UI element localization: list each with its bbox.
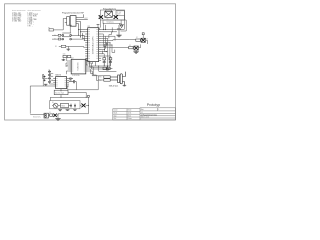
wire relay nets bbox=[99, 15, 127, 31]
IC3 (driver) bbox=[63, 54, 86, 78]
title table left text bbox=[114, 109, 133, 120]
sub-d connector X3 bbox=[110, 72, 125, 85]
wire MAX232 bottom to connector bbox=[61, 86, 76, 91]
ground G1 under regulator bbox=[58, 110, 62, 112]
IC3 pin labels inside bbox=[72, 61, 86, 71]
pushbutton S4 bbox=[52, 37, 85, 41]
wire X2 to rail bbox=[61, 82, 86, 98]
svg-text:R3: R3 bbox=[55, 46, 57, 48]
contact S1 left bbox=[99, 15, 103, 19]
wire gnd bus under crystal bbox=[90, 62, 117, 72]
MAX232 pin labels inside bbox=[56, 78, 66, 86]
wire IC3 left bbox=[66, 58, 69, 75]
svg-text:Buchse 9pol: Buchse 9pol bbox=[55, 92, 64, 94]
wire caps to MAX232 bbox=[43, 73, 53, 86]
ground under K3 bbox=[133, 52, 138, 54]
small boxes above jumpers bbox=[103, 67, 112, 69]
junction dots bus bbox=[78, 35, 85, 40]
svg-text:9 RI –: 9 RI – bbox=[28, 25, 33, 27]
relay K2 cluster bbox=[130, 33, 148, 44]
junction dots bbox=[86, 29, 113, 65]
ground at C5 bbox=[62, 59, 66, 62]
svg-text:Name:: Name: bbox=[128, 110, 132, 112]
svg-text:TXD: TXD bbox=[99, 80, 102, 82]
relay K3 cluster bbox=[125, 44, 141, 51]
wire MAX232 left bbox=[30, 74, 53, 113]
MAX232 pins bbox=[53, 78, 69, 86]
connector X2 box bbox=[54, 90, 68, 94]
svg-text:1:1: 1:1 bbox=[141, 112, 143, 114]
svg-text:K1 12V: K1 12V bbox=[117, 12, 122, 14]
IC2 pin labels inside bbox=[88, 30, 98, 59]
frame is decorative bbox=[5, 4, 176, 120]
pin table T1 bbox=[12, 9, 26, 23]
resistor R4 bbox=[48, 27, 63, 31]
capacitor C1 bbox=[48, 69, 51, 74]
relay driver block K1 bbox=[100, 9, 124, 24]
svg-text:7805: 7805 bbox=[61, 106, 65, 108]
pad P2 bbox=[107, 68, 109, 70]
jumper JP2 bbox=[99, 79, 110, 82]
MAX232 IC1 bbox=[55, 73, 66, 88]
IC2 pins right bbox=[99, 30, 102, 61]
ground below C7 bbox=[116, 35, 121, 37]
node plus marks bbox=[44, 76, 46, 82]
diode D1 bbox=[81, 104, 85, 108]
capacitor C7 (at reset) bbox=[117, 25, 121, 35]
relay info box bbox=[116, 11, 124, 16]
svg-text:ATMEGA32-16PC: ATMEGA32-16PC bbox=[91, 36, 94, 54]
junction dots ISP bbox=[78, 29, 81, 32]
svg-text:ULN2003: ULN2003 bbox=[77, 63, 79, 71]
title block right bbox=[140, 108, 176, 120]
svg-text:Programmierstecker ISP: Programmierstecker ISP bbox=[62, 12, 84, 15]
node VCC stub bbox=[69, 25, 72, 33]
pad P1 bbox=[88, 95, 90, 97]
svg-text:Prototyp: Prototyp bbox=[147, 103, 160, 107]
pin table T2 bbox=[28, 9, 41, 28]
wire bus left of IC2 bbox=[82, 33, 85, 41]
ground under R3 bbox=[67, 49, 71, 51]
power section box bbox=[50, 101, 80, 109]
ground G2 bbox=[66, 109, 77, 112]
svg-text:K1: K1 bbox=[107, 18, 109, 20]
svg-text:6 GND GND: 6 GND GND bbox=[12, 21, 22, 23]
svg-text:RXD: RXD bbox=[99, 77, 102, 79]
junction dots power bbox=[61, 97, 89, 106]
node VCC at IC2 top bbox=[97, 25, 100, 28]
capacitor C8 bbox=[70, 104, 72, 108]
svg-text:Norm: Norm bbox=[128, 115, 131, 117]
svg-text:12.04.: 12.04. bbox=[128, 113, 132, 115]
svg-text:Umpolung: Umpolung bbox=[107, 22, 114, 24]
terminal X1 bbox=[33, 113, 48, 118]
ground at relay block bbox=[120, 25, 123, 27]
microcontroller IC2 bbox=[88, 26, 99, 62]
capacitor C2 bbox=[48, 75, 53, 78]
capacitor C11 bbox=[109, 60, 112, 66]
svg-text:1 Hauptsteuerung: 1 Hauptsteuerung bbox=[141, 114, 157, 117]
wire ISP nets bbox=[63, 14, 88, 37]
wire power rails bbox=[30, 97, 88, 118]
crystal Q1 bbox=[101, 54, 112, 60]
pushbutton S3 bbox=[52, 33, 85, 37]
capacitor C10 bbox=[103, 60, 106, 66]
wire IC3 right bus bbox=[86, 58, 110, 80]
regulator IC4 7805 bbox=[60, 104, 68, 108]
title table left bbox=[113, 109, 140, 120]
IC2 pins left bbox=[85, 30, 88, 61]
resistor R3 row bbox=[55, 45, 85, 49]
wire to jumpers bbox=[76, 76, 103, 90]
ground at caps bbox=[44, 83, 47, 86]
contact S2 right bbox=[114, 15, 118, 19]
jumper JP1 bbox=[99, 76, 110, 79]
ISP header SV1 bbox=[62, 12, 84, 27]
capacitor C9 bbox=[74, 104, 76, 108]
title block right text bbox=[141, 108, 160, 119]
ground at X3 bbox=[123, 84, 127, 87]
svg-text:Bearb.: Bearb. bbox=[114, 113, 118, 115]
svg-text:SUB-D 9pol.: SUB-D 9pol. bbox=[109, 85, 119, 87]
wire mesh right of IC2 bbox=[99, 23, 130, 69]
ground G3 bottom bbox=[55, 119, 60, 121]
svg-text:D3: D3 bbox=[146, 38, 148, 40]
svg-text:B1: B1 bbox=[52, 102, 54, 104]
capacitor C3 bbox=[69, 77, 73, 80]
capacitor C5 above IC3 bbox=[63, 55, 71, 59]
IC3 pins bbox=[69, 61, 88, 71]
capacitor C4 bbox=[69, 80, 76, 83]
junction dots crystal bbox=[98, 66, 108, 67]
diode D2 bbox=[48, 112, 58, 117]
bridge B1 bbox=[52, 102, 71, 108]
capacitor C6 bbox=[48, 78, 51, 84]
